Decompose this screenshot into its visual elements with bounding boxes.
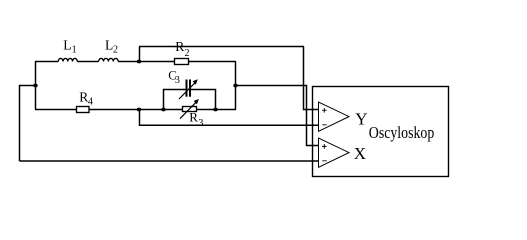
wire tap to outer loop — [20, 86, 37, 162]
svg-text:R: R — [189, 110, 198, 125]
svg-text:L: L — [105, 37, 113, 52]
wire W2 main upper line — [35, 61, 236, 63]
capacitor C3 arrow — [179, 83, 195, 99]
wire C3 parallel branch frame — [164, 90, 216, 110]
inductor L2 — [99, 58, 119, 61]
resistor R4 — [77, 107, 90, 113]
svg-text:X: X — [354, 144, 366, 163]
junction node C3R3 left — [161, 108, 165, 112]
op-amp U2 + and - input pin marks — [322, 144, 327, 161]
wire V2 right branch — [235, 62, 237, 110]
svg-text:4: 4 — [88, 96, 93, 107]
wire top W1 — [139, 46, 304, 48]
resistor R2 — [175, 59, 189, 65]
wire W3 to X+ input — [236, 86, 319, 146]
wire riser at node A — [139, 47, 141, 62]
junction node below L2 on lower line — [137, 108, 141, 112]
svg-text:2: 2 — [113, 45, 118, 56]
junction node Y-tap — [233, 84, 237, 88]
svg-text:2: 2 — [185, 48, 190, 59]
junction node after L2 — [137, 60, 141, 64]
wire left vertical — [35, 62, 37, 110]
op-amp U1 + and - input pin marks — [322, 108, 327, 125]
junction node C3R3 right — [213, 108, 217, 112]
oscilloscope box — [313, 87, 449, 177]
resistor R3 — [183, 107, 197, 112]
svg-text:R: R — [175, 39, 184, 54]
wire bottom W7 to X- input — [20, 160, 319, 162]
junction node on left vertical — [33, 84, 37, 88]
wire V1 down to Y+ input — [304, 47, 319, 110]
svg-text:Y: Y — [355, 109, 367, 128]
svg-text:3: 3 — [198, 118, 203, 129]
op-amp U2 X-channel triangle — [319, 138, 350, 167]
svg-text:Oscyloskop: Oscyloskop — [369, 123, 435, 142]
svg-text:L: L — [63, 37, 71, 52]
svg-text:1: 1 — [72, 45, 77, 56]
resistor R3 arrow — [180, 102, 196, 118]
capacitor C3 plates — [186, 80, 188, 97]
svg-text:3: 3 — [175, 75, 180, 86]
wire W5 lower line — [35, 109, 236, 111]
wire drop from W5 to W6 Y- input — [140, 110, 319, 126]
op-amp U1 Y-channel triangle — [319, 102, 350, 131]
inductor L1 — [58, 58, 77, 61]
